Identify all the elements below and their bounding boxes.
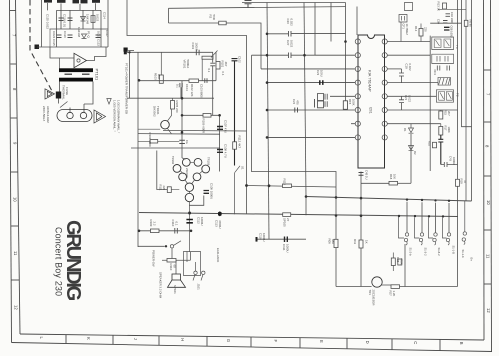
wire [330, 3, 332, 42]
wire from filter block to bridge triangle [50, 47, 74, 58]
wire R2 feed [169, 23, 262, 69]
power switch POWER-SW [138, 245, 165, 247]
svg-text:100K: 100K [352, 99, 356, 106]
svg-text:1000P: 1000P [195, 43, 199, 51]
capacitor C45 [359, 173, 364, 176]
wire [49, 29, 51, 47]
svg-text:C09: C09 [437, 19, 441, 24]
svg-text:0.022: 0.022 [408, 95, 412, 102]
svg-text:0.1: 0.1 [176, 84, 180, 88]
wire [181, 81, 183, 158]
wire long vertical x267 [267, 3, 269, 240]
wire [429, 36, 431, 171]
capacitor C109 electrolytic [204, 191, 210, 194]
svg-text:J: J [133, 338, 138, 340]
svg-text:C104: C104 [185, 84, 189, 91]
wire [107, 0, 109, 47]
svg-text:TR101: TR101 [156, 106, 160, 115]
transistor TR1 2SC1815 [372, 277, 382, 287]
wire [50, 28, 109, 30]
varicap diode D1 [409, 124, 414, 134]
svg-text:CF3: CF3 [433, 70, 437, 76]
svg-text:G: G [226, 339, 231, 342]
svg-text:R111: R111 [159, 185, 163, 192]
resistor R110 [167, 259, 176, 263]
wire zobel [139, 230, 191, 232]
svg-text:PT101: PT101 [95, 69, 100, 82]
wire pin2 [315, 54, 355, 56]
wire [457, 0, 459, 179]
svg-text:PT101=POWER TRANSFORMER GB: PT101=POWER TRANSFORMER GB [125, 63, 129, 114]
potentiometer VR101 [202, 56, 213, 59]
wire [211, 52, 214, 62]
svg-text:C108 4.7U: C108 4.7U [224, 144, 228, 158]
switch S1-1-b contacts far right [463, 232, 466, 235]
svg-text:R6 96: R6 96 [469, 20, 473, 28]
wire [345, 3, 347, 101]
svg-text:S1-2-b: S1-2-b [409, 248, 413, 257]
svg-text:R09: R09 [328, 239, 332, 245]
svg-text:VR101: VR101 [183, 60, 187, 69]
svg-text:S1-1-b: S1-1-b [461, 250, 465, 259]
resistor R102 [189, 79, 199, 82]
capacitor C106 electrolytic [232, 59, 238, 166]
svg-text:10: 10 [486, 200, 491, 205]
svg-text:D: D [365, 341, 370, 344]
svg-text:S1-8-2: S1-8-2 [437, 248, 441, 257]
footnote triangle mark [107, 99, 111, 105]
wire [59, 82, 61, 92]
svg-text:KIA 7614AP: KIA 7614AP [368, 70, 373, 92]
wire pin R5 [387, 95, 436, 97]
svg-text:R104 1000: R104 1000 [148, 133, 152, 148]
capacitor C26 [267, 31, 346, 37]
IC left pins [355, 39, 360, 140]
svg-text:12: 12 [486, 308, 491, 313]
IC right pins [382, 39, 387, 140]
svg-text:C101: C101 [191, 43, 195, 50]
output transistor TR109 [185, 193, 193, 201]
svg-text:1K: 1K [365, 240, 369, 244]
switch S1-2 contacts [405, 233, 408, 236]
wire [267, 109, 308, 111]
output stage transistor TR102 [182, 158, 190, 166]
svg-text:T3: T3 [455, 45, 459, 49]
svg-text:R16: R16 [428, 141, 432, 146]
wire bias chain [157, 151, 168, 190]
svg-text:S1: S1 [241, 166, 245, 170]
svg-text:C10 1000: C10 1000 [450, 12, 454, 24]
svg-text:R103: R103 [154, 73, 158, 80]
capacitor C101 [196, 50, 199, 55]
svg-text:J101: J101 [197, 284, 201, 291]
wire pin5 [330, 95, 355, 97]
wire pin R7 [387, 123, 441, 125]
svg-text:C22: C22 [292, 99, 296, 105]
wire pin3 [261, 68, 355, 70]
svg-text:C114: C114 [103, 12, 107, 19]
capacitor C23 [320, 80, 323, 85]
resistor R15 100K [343, 101, 347, 110]
svg-text:S1-1-B: S1-1-B [452, 246, 456, 255]
svg-text:220: 220 [424, 27, 428, 32]
wire pin4 [267, 82, 355, 84]
svg-text:C102: C102 [238, 56, 242, 63]
IF transformer T3 [432, 37, 454, 50]
capacitor C24 electrolytic [318, 94, 328, 101]
wire pin7 stub [351, 123, 355, 125]
wire bus switched [306, 197, 472, 202]
class II double triangle symbol left [45, 89, 55, 99]
resistor R103 [159, 75, 163, 83]
svg-text:0.022: 0.022 [290, 40, 294, 48]
wire [82, 10, 84, 29]
transformer PT101 secondary winding [59, 78, 93, 82]
audio input terminal [124, 50, 127, 54]
capacitor C09 [443, 21, 448, 24]
capacitor C13 3300P [405, 3, 413, 11]
wire long vertical x304 [304, 3, 306, 197]
svg-text:SP105: SP105 [283, 218, 287, 227]
resistor R16 [433, 142, 437, 148]
svg-text:470K: 470K [400, 258, 404, 265]
svg-text:R17: R17 [444, 126, 448, 131]
wire C109 to rail [189, 196, 203, 206]
wire [79, 4, 81, 10]
capacitor C19 [399, 69, 404, 83]
svg-text:0.022 C115: 0.022 C115 [52, 31, 56, 46]
capacitor C115 [57, 35, 62, 38]
wire [129, 52, 131, 98]
wire pin R1 [387, 41, 430, 43]
svg-text:B+: B+ [470, 258, 474, 262]
svg-text:11: 11 [485, 254, 490, 259]
resistor R2 [219, 21, 227, 25]
svg-text:C103 9800: C103 9800 [200, 84, 204, 98]
wire [95, 3, 97, 10]
wire [137, 52, 139, 247]
svg-text:C125 0.022: C125 0.022 [46, 14, 50, 29]
capacitor C103 [205, 78, 207, 83]
wire [182, 115, 220, 171]
svg-text:R19: R19 [460, 179, 464, 185]
svg-text:1000U: 1000U [262, 233, 266, 242]
capacitor C10 [446, 14, 451, 16]
svg-text:R106 600R: R106 600R [202, 119, 206, 134]
svg-text:R15: R15 [348, 99, 352, 105]
wire pin R2 [387, 54, 430, 56]
wire C113b line [257, 238, 307, 240]
wire [162, 248, 190, 274]
svg-text:EAR-JACK: EAR-JACK [216, 248, 220, 262]
svg-text:C113: C113 [215, 220, 219, 227]
svg-text:100U: 100U [320, 70, 324, 77]
svg-text:1.2K: 1.2K [392, 291, 396, 297]
svg-text:500KA: 500KA [186, 60, 190, 69]
ceramic filter CF1 [399, 15, 407, 42]
resistor R13 [443, 3, 447, 9]
capacitor C25 electrolytic [318, 101, 328, 108]
svg-text:C107 47U: C107 47U [224, 120, 228, 133]
svg-text:R101: R101 [221, 61, 225, 68]
resistor R09 [334, 239, 338, 247]
wire pin8 [267, 136, 355, 138]
wire [138, 80, 216, 82]
svg-text:1000U: 1000U [200, 217, 204, 226]
svg-text:1.G05 VERSION AVAIL. *: 1.G05 VERSION AVAIL. * [113, 100, 117, 133]
svg-text:C112: C112 [197, 217, 201, 224]
svg-text:C23: C23 [316, 70, 320, 76]
diode D2 [409, 146, 414, 151]
svg-text:68: 68 [173, 265, 177, 269]
speaker SP101 [172, 274, 181, 280]
svg-text:27: 27 [286, 218, 290, 222]
svg-text:D1: D1 [403, 128, 407, 132]
svg-text:C109 1000U: C109 1000U [210, 183, 214, 199]
svg-text:2.2: 2.2 [153, 222, 157, 226]
switch S1-3 contacts [420, 233, 423, 236]
resistor R18 [389, 181, 398, 185]
wire top rail [242, 2, 346, 4]
capacitor C22 [295, 108, 298, 113]
svg-text:2SC1815GR: 2SC1815GR [372, 290, 376, 306]
svg-text:R27: R27 [389, 291, 393, 297]
wire [69, 108, 71, 113]
capacitor C21 [399, 96, 404, 110]
switch S1 contact [235, 166, 241, 215]
svg-text:TR1: TR1 [368, 290, 372, 296]
svg-text:R13 1K: R13 1K [437, 2, 441, 11]
svg-text:0.022: 0.022 [408, 64, 412, 71]
output stage transistor TR103 [194, 158, 202, 166]
AC plug P101 [57, 110, 92, 122]
switch bank S1 unit 4 drop [448, 203, 450, 233]
wire [84, 82, 93, 113]
capacitor C111 on rail [179, 140, 185, 143]
svg-text:470: 470 [296, 100, 300, 105]
resistor R10 [398, 259, 402, 265]
wire [92, 10, 94, 29]
svg-text:2K2: 2K2 [157, 74, 161, 79]
resistor R111 [167, 187, 171, 193]
resistor R105 [171, 101, 175, 110]
wire [131, 147, 220, 149]
svg-text:R110: R110 [169, 264, 173, 271]
svg-text:8: 8 [485, 145, 490, 148]
wire B+ feed [471, 0, 473, 201]
svg-text:680: 680 [331, 239, 335, 244]
switch bank S1 unit 1 drop [406, 202, 408, 233]
wire [127, 0, 247, 214]
svg-text:C21: C21 [404, 95, 408, 101]
svg-text:C45 1U: C45 1U [365, 170, 369, 179]
capacitor C107 electrolytic [217, 127, 223, 130]
wire pin R6 [387, 109, 457, 111]
svg-text:R18: R18 [389, 174, 393, 180]
svg-text:P1-Q: P1-Q [87, 31, 91, 38]
svg-text:10: 10 [13, 197, 18, 202]
resistor R112 [233, 142, 237, 149]
resistor R15b 2K7 [439, 111, 443, 119]
wire [462, 0, 472, 127]
resistor R101 [216, 62, 220, 70]
wire [168, 8, 170, 23]
SFE ceramic filter hatched [438, 77, 450, 85]
resistor R6 [464, 20, 468, 26]
svg-text:GRUNDIG: GRUNDIG [62, 220, 84, 301]
svg-text:0.1: 0.1 [207, 69, 211, 73]
diode D101 1N4148 [81, 17, 86, 22]
svg-text:2K7: 2K7 [447, 111, 451, 116]
wire [314, 3, 316, 56]
capacitor pair C17 C18 [437, 66, 449, 71]
svg-text:R2: R2 [209, 15, 213, 19]
svg-text:2SC945: 2SC945 [185, 168, 189, 178]
svg-text:F: F [273, 340, 278, 343]
wire pin R4 [387, 82, 438, 84]
svg-text:10K: 10K [393, 174, 397, 179]
capacitor C113 4700U on bus [218, 211, 222, 216]
capacitor C125 [59, 18, 64, 21]
svg-text:Concert Boy 230: Concert Boy 230 [54, 227, 64, 296]
resistor R107 [283, 213, 291, 217]
wire [360, 172, 362, 287]
wire pin6 [308, 109, 355, 111]
svg-text:240V-50HZ: 240V-50HZ [42, 106, 46, 121]
power switch blade [59, 99, 68, 108]
svg-text:4700U: 4700U [218, 220, 222, 229]
resistor R11 [359, 240, 363, 248]
transistor TR101 [161, 120, 170, 129]
resistor R106 [203, 114, 211, 118]
wire [127, 51, 212, 53]
svg-text:TR103: TR103 [207, 157, 211, 166]
svg-text:DH3362: DH3362 [153, 106, 157, 117]
earphone jack J101 [184, 252, 201, 276]
svg-text:C110: C110 [171, 220, 175, 227]
wire [47, 3, 49, 10]
switch S1-1 contacts [447, 233, 450, 236]
svg-text:K: K [86, 337, 91, 340]
capacitor C44 electrolytic [438, 135, 443, 165]
svg-text:H: H [180, 338, 185, 341]
wire [410, 134, 412, 183]
svg-text:R113: R113 [283, 179, 287, 186]
svg-text:0.022: 0.022 [96, 14, 100, 22]
driver transistor TR107 [193, 173, 201, 181]
capacitor C43 1000U [441, 162, 458, 167]
wire [41, 0, 43, 47]
svg-text:0.1: 0.1 [175, 222, 179, 226]
svg-text:1000U: 1000U [452, 157, 456, 165]
svg-text:CF1: CF1 [402, 24, 406, 30]
wire [69, 10, 71, 29]
svg-text:POWER-SW: POWER-SW [152, 250, 156, 267]
class II double triangle symbol right of plug [94, 110, 106, 123]
capacitor C102A [180, 83, 182, 98]
wire [314, 99, 316, 108]
svg-text:C27: C27 [286, 40, 290, 46]
svg-text:C19: C19 [405, 64, 409, 70]
svg-text:C08 100U: C08 100U [450, 26, 454, 38]
wire [404, 244, 406, 287]
svg-text:47: 47 [463, 180, 467, 184]
switch S1-8 contacts [434, 233, 437, 236]
svg-text:7: 7 [485, 93, 490, 96]
resistor R124 [91, 16, 95, 23]
svg-text:220: 220 [162, 186, 166, 191]
node junction [245, 184, 248, 187]
wire [127, 97, 214, 99]
wire [247, 186, 337, 188]
svg-text:1N4148: 1N4148 [77, 27, 81, 38]
resistor R19 47 [456, 179, 460, 186]
transformer PT101 core lines [65, 73, 90, 75]
svg-text:1000U: 1000U [286, 244, 290, 253]
svg-text:100K: 100K [447, 127, 451, 133]
svg-text:11: 11 [13, 251, 18, 256]
svg-text:S1-3-2: S1-3-2 [424, 248, 428, 257]
wire [163, 129, 247, 132]
resistor R14 220 [419, 29, 423, 37]
rectifier triangle symbol [74, 53, 87, 67]
capacitor C118 [68, 18, 73, 21]
mains isolation dashed line [30, 0, 52, 91]
svg-text:9: 9 [13, 142, 18, 145]
capacitor C105 [210, 52, 216, 115]
wire bus V+ [139, 213, 458, 217]
driver transistor TR106 [179, 173, 187, 181]
capacitor C122 [96, 35, 101, 38]
svg-text:56R: 56R [212, 15, 216, 20]
switch bank S1 unit 2 drop [421, 202, 423, 233]
svg-text:C118 0.01: C118 0.01 [63, 14, 67, 28]
svg-text:I201: I201 [369, 107, 373, 114]
polarity bar [256, 237, 258, 242]
svg-text:SP101: SP101 [173, 285, 177, 294]
note marker dash [128, 50, 134, 52]
wire vertical B+ [457, 187, 459, 287]
wire [60, 10, 62, 29]
capacitor C108 electrolytic [217, 150, 223, 153]
resistor R104 [150, 140, 158, 144]
svg-text:AC/M-2-G02: AC/M-2-G02 [46, 106, 50, 123]
svg-text:R112 4K7: R112 4K7 [238, 136, 242, 149]
svg-text:FG: FG [185, 140, 189, 144]
svg-text:C: C [413, 341, 418, 344]
node: mains input terminal [35, 45, 40, 50]
output transistor TR108 [185, 183, 193, 191]
wire [305, 197, 307, 216]
thermal fuse [56, 92, 61, 99]
ceramic filter CF3 [432, 54, 454, 63]
cut-off components at sheet top edge [44, 0, 100, 3]
svg-text:B: B [459, 342, 464, 345]
svg-text:1N4148: 1N4148 [86, 14, 90, 25]
footnote marker square [124, 48, 128, 52]
resistor R113 [283, 184, 292, 188]
svg-text:R105 220: R105 220 [175, 101, 179, 114]
svg-text:12: 12 [13, 305, 18, 310]
diode D102 1N4148 [82, 34, 87, 39]
capacitor C27 [252, 53, 316, 59]
svg-text:10.7MHZ: 10.7MHZ [405, 24, 409, 36]
capacitor C111 1000U electrolytic [285, 237, 288, 243]
capacitor C08 electrolytic [444, 27, 450, 30]
svg-text:C26: C26 [286, 19, 290, 25]
wire [59, 58, 61, 69]
resistor R109 [151, 229, 160, 233]
